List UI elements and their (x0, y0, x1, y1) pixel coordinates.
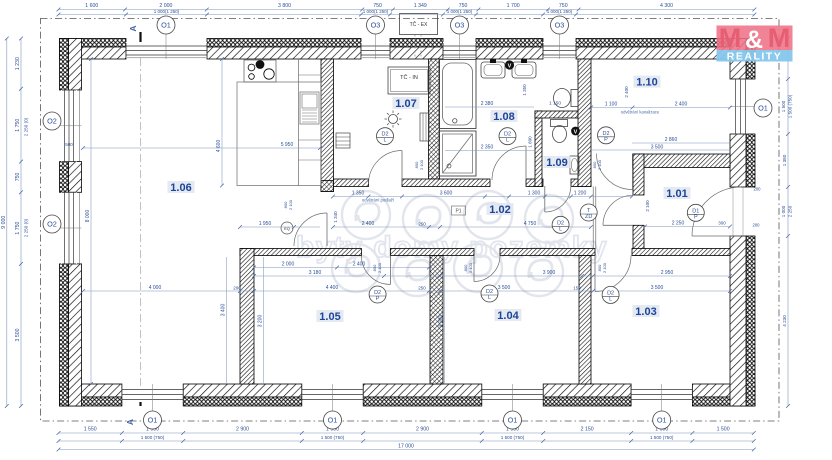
window O1 bottom 2 (302, 388, 363, 402)
window axis lines (165, 33, 167, 59)
svg-text:1 350: 1 350 (522, 84, 527, 96)
svg-text:150: 150 (573, 286, 581, 291)
top dimension row 1 (59, 9, 755, 11)
svg-text:3 600: 3 600 (440, 191, 453, 197)
svg-text:1 600: 1 600 (528, 136, 533, 148)
svg-text:M: M (719, 23, 742, 53)
svg-text:1 550: 1 550 (84, 427, 97, 433)
svg-text:1 380: 1 380 (782, 154, 787, 166)
svg-text:2 900: 2 900 (416, 427, 429, 433)
window O2 left 2 (61, 192, 77, 264)
svg-text:1 200: 1 200 (574, 191, 587, 197)
svg-text:1 950: 1 950 (259, 221, 272, 227)
window O1 bottom 1 (122, 388, 183, 402)
kitchen counter (237, 82, 321, 186)
svg-text:2 100: 2 100 (288, 199, 293, 210)
interior wall 1.09 north (535, 111, 578, 118)
svg-text:1 000(1 250): 1 000(1 250) (363, 9, 389, 14)
svg-text:3 900: 3 900 (543, 270, 556, 276)
svg-text:O2: O2 (47, 219, 57, 228)
svg-text:1 150: 1 150 (549, 101, 561, 107)
svg-text:2 400: 2 400 (362, 221, 375, 227)
svg-text:250: 250 (418, 222, 426, 227)
svg-text:O1: O1 (758, 103, 768, 112)
svg-text:M: M (768, 23, 791, 53)
svg-text:3 800: 3 800 (278, 3, 291, 9)
svg-text:2 250 (0): 2 250 (0) (24, 117, 29, 136)
svg-text:300: 300 (718, 221, 726, 226)
svg-text:5 950: 5 950 (281, 142, 294, 148)
bathtub (439, 60, 476, 129)
svg-text:3 500: 3 500 (651, 285, 664, 291)
TC-IN unit (388, 67, 430, 94)
svg-text:3 200: 3 200 (258, 315, 264, 328)
M&M Reality logo (717, 23, 793, 63)
svg-text:1 500: 1 500 (717, 427, 730, 433)
svg-text:A: A (128, 25, 138, 31)
toilet 1.09 (551, 120, 568, 127)
svg-text:1 000(1 250): 1 000(1 250) (547, 9, 573, 14)
svg-text:L: L (383, 138, 386, 144)
left dimension col 1 (6, 39, 8, 407)
toilet 1.08 (571, 90, 578, 107)
svg-text:P1: P1 (455, 209, 461, 215)
svg-text:3 200: 3 200 (439, 315, 445, 328)
svg-text:500: 500 (65, 142, 73, 147)
dim bath (445, 106, 534, 108)
interior wall W3 band south of bath (334, 179, 369, 187)
left dimension col 2 (20, 39, 22, 407)
interior wall W8 hall/south-rooms (240, 249, 362, 256)
svg-text:2 350: 2 350 (481, 145, 494, 151)
radiator 1.07 left (336, 133, 350, 148)
kitchen fridge (300, 92, 319, 124)
svg-text:1.03: 1.03 (635, 306, 656, 318)
svg-text:2 860: 2 860 (665, 137, 678, 143)
svg-text:O1: O1 (508, 415, 518, 424)
svg-text:4 600: 4 600 (216, 140, 222, 153)
interior wall W1 end cap (321, 181, 334, 192)
svg-text:1 000(1 250): 1 000(1 250) (154, 9, 180, 14)
kitchen cabinets (299, 74, 322, 76)
window O3 top 3 (543, 42, 576, 58)
svg-text:750: 750 (15, 173, 21, 182)
svg-text:byty domy pozemky: byty domy pozemky (296, 231, 608, 264)
dim line hall y196 (333, 196, 632, 198)
svg-text:1 100: 1 100 (605, 102, 618, 108)
svg-text:1 300: 1 300 (528, 191, 541, 197)
door 1.10 (597, 154, 633, 190)
interior wall W1 kitchen/hall (321, 59, 334, 192)
svg-text:1 750: 1 750 (15, 221, 21, 234)
TC-EX unit (400, 14, 438, 35)
svg-text:17 000: 17 000 (398, 444, 414, 450)
svg-text:O3: O3 (555, 20, 565, 29)
room labels (168, 181, 195, 193)
markers O (157, 16, 175, 34)
interior wall W7 west of 1.01 lower (633, 225, 644, 255)
svg-text:1 349: 1 349 (414, 3, 427, 9)
interior wall 1.09 west (535, 111, 542, 187)
window O3 top 2 (443, 42, 476, 58)
boundary frame (41, 18, 780, 421)
markers D (377, 128, 394, 145)
svg-text:1 500 (750): 1 500 (750) (321, 435, 345, 440)
svg-text:1 500 (750): 1 500 (750) (141, 435, 165, 440)
svg-text:1 750: 1 750 (15, 119, 21, 132)
svg-text:REALITY: REALITY (727, 51, 782, 63)
hall passage frame (592, 187, 594, 249)
svg-text:2 100: 2 100 (597, 159, 602, 170)
top dimension row 2 (59, 14, 755, 16)
svg-text:1 700: 1 700 (507, 3, 520, 9)
symbol V circle 1.09 (571, 127, 580, 136)
kitchen stove (244, 60, 276, 82)
door opening right wall D1 (730, 186, 746, 188)
svg-text:1.09: 1.09 (546, 157, 567, 169)
dim line living vertical (221, 59, 223, 186)
svg-text:1.10: 1.10 (636, 77, 657, 89)
svg-text:1.08: 1.08 (493, 111, 514, 123)
stove symbol disc (256, 60, 265, 69)
svg-text:1.06: 1.06 (170, 182, 191, 194)
washbasin 1 (481, 62, 505, 78)
interior wall W5 west of 1.10 (578, 59, 591, 187)
svg-text:O1: O1 (328, 415, 338, 424)
svg-text:1.05: 1.05 (319, 311, 340, 323)
shower (439, 131, 476, 176)
svg-text:L: L (559, 226, 562, 232)
marker P1 (452, 206, 466, 215)
svg-text:3 500: 3 500 (15, 328, 21, 341)
dim 1.10 (591, 107, 730, 109)
svg-text:L: L (609, 296, 612, 302)
dim line south rooms y291 (83, 290, 730, 292)
svg-text:1 340: 1 340 (333, 211, 338, 223)
svg-text:2 950: 2 950 (661, 270, 674, 276)
svg-text:1 230: 1 230 (15, 57, 21, 70)
dim line 8000 vertical (90, 59, 92, 384)
door 1.01 entrance (692, 187, 741, 236)
svg-text:3 500: 3 500 (498, 285, 511, 291)
door 1.04 (474, 256, 500, 282)
svg-text:3 500: 3 500 (651, 145, 664, 151)
svg-text:2 000: 2 000 (282, 262, 295, 268)
door 1.08 (492, 146, 526, 180)
svg-text:200: 200 (753, 223, 761, 228)
svg-text:2 380: 2 380 (481, 101, 494, 107)
svg-text:P: P (694, 214, 698, 220)
svg-text:1 500: 1 500 (781, 100, 786, 112)
window O1 top (126, 42, 207, 58)
svg-text:4 400: 4 400 (326, 285, 339, 291)
window O2 left 1 (61, 90, 77, 162)
svg-text:P: P (376, 296, 380, 302)
svg-text:A: A (125, 419, 135, 425)
svg-text:1.04: 1.04 (497, 310, 519, 322)
svg-text:1 000: 1 000 (781, 205, 786, 217)
svg-text:O1: O1 (657, 415, 667, 424)
svg-text:EQ: EQ (284, 226, 290, 231)
wire right wall segments (746, 39, 755, 80)
symbol V circle bath (505, 60, 514, 69)
svg-text:4 230: 4 230 (782, 315, 787, 327)
svg-text:2 100: 2 100 (645, 200, 650, 212)
svg-text:O2: O2 (47, 116, 57, 125)
window O1 bottom 3 (482, 388, 543, 402)
svg-text:9 000: 9 000 (1, 216, 7, 229)
dim line south rooms y267 (254, 267, 429, 269)
window O1 bottom 4 (631, 388, 692, 402)
svg-text:1 350: 1 350 (352, 191, 365, 197)
dim line south rooms y276 (254, 275, 730, 277)
door 1.07 (369, 151, 403, 185)
bottom dimension row 2 (59, 440, 754, 442)
sun symbol (389, 115, 398, 124)
svg-text:O3: O3 (371, 20, 381, 29)
dim verticals south rooms (226, 257, 228, 384)
svg-text:V: V (508, 63, 512, 69)
door 1.01 west (603, 195, 633, 225)
interior wall W9 west of 1.05 (240, 249, 254, 385)
svg-text:1 500 (750): 1 500 (750) (788, 94, 793, 118)
svg-text:O3: O3 (455, 20, 465, 29)
washbasin 1.09 (570, 156, 579, 174)
svg-text:odvětrání podlaží: odvětrání podlaží (362, 198, 395, 203)
interior wall W7 west of 1.01 upper (633, 154, 644, 195)
svg-text:2 250 (0): 2 250 (0) (24, 218, 29, 237)
svg-text:TČ - IN: TČ - IN (400, 74, 418, 81)
svg-text:O1: O1 (161, 20, 171, 29)
interior wall W10 between 1.05 and 1.04 (430, 256, 443, 385)
svg-text:V: V (574, 129, 578, 135)
svg-text:2 400: 2 400 (353, 262, 366, 268)
watermark (332, 191, 573, 296)
svg-text:2 100: 2 100 (419, 159, 424, 170)
svg-text:2 250: 2 250 (788, 205, 793, 217)
svg-text:1.01: 1.01 (666, 188, 687, 200)
svg-text:P: P (604, 137, 608, 143)
interior wall W11 between 1.04 and 1.03 (579, 256, 591, 385)
bottom dimension total (59, 449, 754, 451)
svg-text:200: 200 (233, 286, 241, 291)
svg-text:2 100: 2 100 (377, 262, 382, 273)
section line A-A (140, 42, 142, 400)
svg-text:O1: O1 (148, 415, 158, 424)
svg-text:8 000: 8 000 (85, 210, 91, 223)
svg-text:2 100: 2 100 (468, 262, 473, 273)
svg-text:250: 250 (418, 286, 426, 291)
svg-text:L: L (488, 295, 491, 301)
door 1.05 (361, 256, 390, 285)
svg-text:1 000(1 250): 1 000(1 250) (447, 9, 473, 14)
radiator 1.07 right (420, 113, 429, 141)
svg-text:2 100: 2 100 (602, 262, 607, 273)
dim line hall y227 (333, 226, 591, 228)
svg-text:200: 200 (754, 187, 762, 192)
dim line living room (83, 147, 320, 149)
svg-text:1 500 (750): 1 500 (750) (650, 435, 674, 440)
svg-text:3 400: 3 400 (221, 304, 227, 317)
interior wall W2 between 1.07 and 1.08 (429, 59, 440, 179)
svg-text:2 400: 2 400 (624, 86, 629, 98)
svg-text:4 000: 4 000 (149, 285, 162, 291)
door 1.09 (545, 186, 571, 212)
svg-text:4 300: 4 300 (660, 3, 673, 9)
dim line hall 1950 (240, 226, 320, 228)
svg-text:2 150: 2 150 (581, 427, 594, 433)
svg-text:1 500 (750): 1 500 (750) (501, 435, 525, 440)
right dimension col (787, 39, 789, 407)
wire top wall segments (60, 39, 127, 48)
washbasin 2 (512, 62, 536, 78)
svg-text:4 750: 4 750 (524, 221, 537, 227)
svg-text:1.02: 1.02 (489, 204, 510, 216)
dim 1.01 (645, 226, 730, 228)
window O3 top 1 (361, 42, 390, 58)
wire bottom wall segments (60, 384, 122, 397)
door 1.03 (595, 256, 631, 292)
svg-text:odvětrání kanalizace: odvětrání kanalizace (621, 110, 660, 115)
door kitchen wall end (294, 213, 327, 246)
svg-text:TČ - EX: TČ - EX (410, 21, 428, 28)
svg-text:1 600: 1 600 (85, 3, 98, 9)
wire left wall segments (60, 39, 69, 91)
svg-text:3 180: 3 180 (309, 270, 322, 276)
svg-text:2 900: 2 900 (236, 427, 249, 433)
interior wall W6 south of 1.10 (633, 154, 731, 168)
svg-text:1.07: 1.07 (395, 98, 416, 110)
window O1 right (734, 79, 748, 134)
bottom dimension row 1 (59, 432, 754, 434)
svg-text:2 250: 2 250 (672, 221, 685, 227)
svg-text:L: L (506, 138, 509, 144)
svg-text:2 400: 2 400 (675, 102, 688, 108)
svg-text:ZD: ZD (585, 214, 592, 220)
